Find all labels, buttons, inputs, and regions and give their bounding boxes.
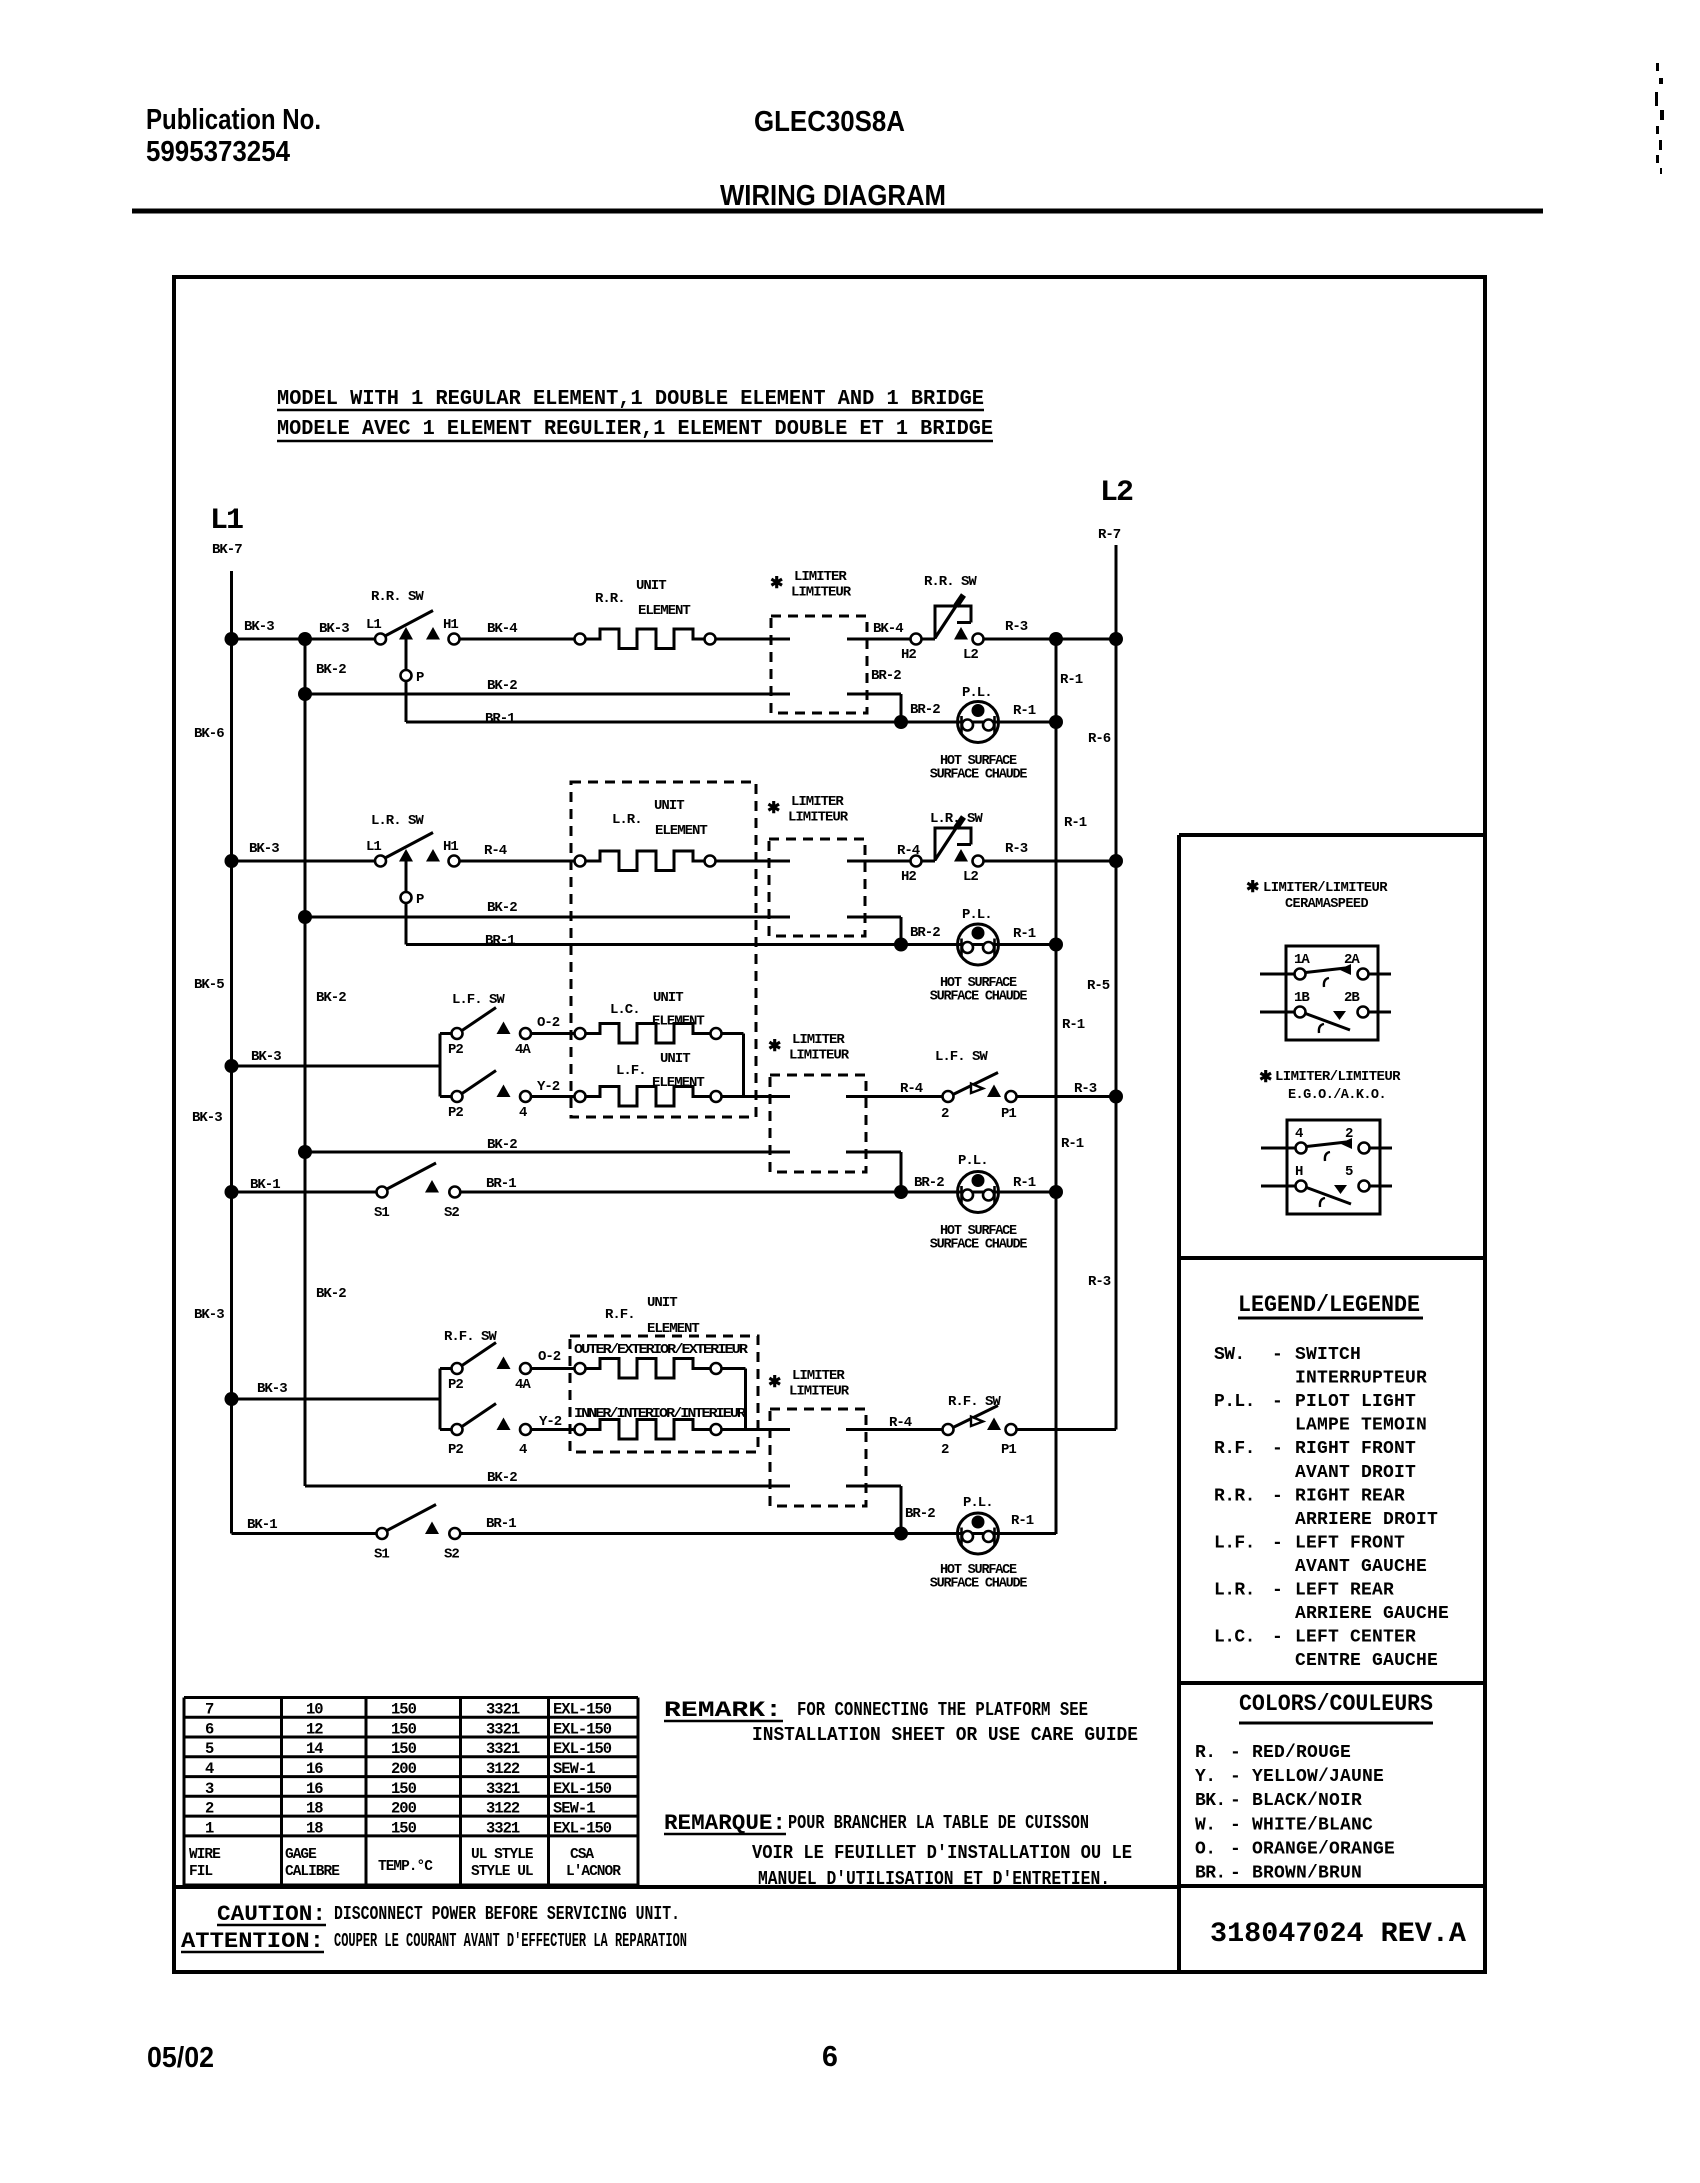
svg-text:150: 150 bbox=[391, 1780, 417, 1798]
svg-text:200: 200 bbox=[391, 1760, 417, 1778]
svg-text:BK-2: BK-2 bbox=[487, 678, 517, 694]
svg-text:ELEMENT: ELEMENT bbox=[655, 823, 707, 839]
svg-text:150: 150 bbox=[391, 1701, 417, 1719]
svg-text:COUPER LE COURANT AVANT D'EFFE: COUPER LE COURANT AVANT D'EFFECTUER LA R… bbox=[334, 1930, 687, 1952]
svg-text:18: 18 bbox=[306, 1819, 323, 1837]
svg-text:H2: H2 bbox=[901, 869, 916, 885]
svg-text:H1: H1 bbox=[443, 617, 458, 633]
terminal P bbox=[401, 670, 412, 681]
svg-text:Publication No.: Publication No. bbox=[146, 104, 321, 136]
svg-text:WHITE/BLANC: WHITE/BLANC bbox=[1252, 1815, 1373, 1835]
svg-text:R-5: R-5 bbox=[1087, 978, 1110, 994]
svg-text:150: 150 bbox=[391, 1740, 417, 1758]
junction BR-2/BR-1 row3 bbox=[894, 1185, 908, 1199]
svg-text:P: P bbox=[416, 892, 424, 908]
svg-text:1A: 1A bbox=[1294, 952, 1310, 968]
wire BK-2 row1 bbox=[305, 693, 790, 696]
junction BR-2/BR-1 row2 bbox=[894, 938, 908, 952]
svg-text:INTERRUPTEUR: INTERRUPTEUR bbox=[1295, 1369, 1427, 1389]
wire L1 bus vertical bbox=[230, 571, 233, 1534]
wire R-3 bbox=[984, 638, 1117, 641]
svg-text:R-3: R-3 bbox=[1005, 841, 1028, 857]
svg-text:R.R.: R.R. bbox=[1214, 1486, 1255, 1506]
svg-text:R-1: R-1 bbox=[1011, 1513, 1034, 1529]
svg-text:BROWN/BRUN: BROWN/BRUN bbox=[1252, 1864, 1362, 1884]
svg-text:-: - bbox=[1272, 1533, 1283, 1553]
junction BK-2 row3 bbox=[298, 1145, 312, 1159]
hook row B bbox=[1319, 1024, 1324, 1033]
svg-text:R-7: R-7 bbox=[1098, 527, 1121, 543]
switch L.R. SW (left): contact L1 terminal bbox=[375, 856, 386, 867]
svg-text:-: - bbox=[1230, 1839, 1241, 1859]
svg-text:L.F.: L.F. bbox=[616, 1063, 646, 1079]
svg-text:R.F.: R.F. bbox=[605, 1307, 635, 1323]
svg-text:POUR BRANCHER LA TABLE DE CUIS: POUR BRANCHER LA TABLE DE CUISSON bbox=[788, 1812, 1089, 1834]
svg-text:R-6: R-6 bbox=[1088, 731, 1111, 747]
svg-text:L.F. SW: L.F. SW bbox=[935, 1049, 988, 1065]
hook row B bbox=[1320, 1198, 1325, 1207]
svg-text:L.C.: L.C. bbox=[1214, 1628, 1255, 1648]
svg-text:L.R. SW: L.R. SW bbox=[371, 813, 424, 829]
junction L2 bus / row3 bbox=[1109, 1090, 1123, 1104]
wire bridge top row3 bbox=[722, 1032, 744, 1035]
svg-text:-: - bbox=[1230, 1791, 1241, 1811]
blade row B bbox=[1306, 1014, 1351, 1031]
svg-text:4A: 4A bbox=[515, 1377, 531, 1393]
svg-text:BK-6: BK-6 bbox=[194, 726, 224, 742]
svg-text:1B: 1B bbox=[1294, 990, 1310, 1006]
svg-text:LIMITER: LIMITER bbox=[792, 1368, 845, 1384]
svg-text:PILOT LIGHT: PILOT LIGHT bbox=[1295, 1392, 1416, 1412]
svg-text:ELEMENT: ELEMENT bbox=[652, 1014, 704, 1030]
svg-text:L.F. SW: L.F. SW bbox=[452, 992, 505, 1008]
svg-text:ATTENTION:: ATTENTION: bbox=[181, 1929, 324, 1954]
svg-text:H2: H2 bbox=[901, 647, 916, 663]
wire BR-2 elbow row4 bbox=[900, 1486, 903, 1534]
double switch L.F. SW (left) bbox=[439, 1034, 442, 1097]
svg-text:BR-2: BR-2 bbox=[910, 925, 940, 941]
svg-text:TEMP.°C: TEMP.°C bbox=[378, 1859, 433, 1875]
svg-text:BK.: BK. bbox=[1195, 1791, 1226, 1811]
switch L.R. SW (left): contact arrow P bbox=[399, 849, 413, 862]
svg-text:L.C.: L.C. bbox=[610, 1002, 640, 1018]
switch R.R. SW (left): contact H1 terminal bbox=[449, 634, 460, 645]
wire R-4 row4 bbox=[846, 1428, 943, 1431]
svg-text:O-2: O-2 bbox=[537, 1015, 560, 1031]
svg-text:AVANT GAUCHE: AVANT GAUCHE bbox=[1295, 1557, 1427, 1577]
wire O-2 row4 bbox=[531, 1367, 575, 1370]
wire BK-1 row4 bbox=[232, 1532, 377, 1535]
svg-text:3321: 3321 bbox=[486, 1740, 520, 1758]
wire terminal lead bbox=[1358, 973, 1392, 976]
wire R-1 return column vertical bbox=[1055, 637, 1058, 1534]
wire terminal lead bbox=[1260, 1011, 1295, 1014]
resistor: R.F. outer element bbox=[575, 1363, 586, 1374]
svg-text:SW.: SW. bbox=[1214, 1345, 1245, 1365]
svg-text:BR-2: BR-2 bbox=[905, 1506, 935, 1522]
svg-text:✱: ✱ bbox=[767, 800, 780, 818]
header rule bbox=[132, 209, 1543, 214]
svg-text:WIRING DIAGRAM: WIRING DIAGRAM bbox=[720, 180, 946, 212]
svg-text:LIMITER: LIMITER bbox=[791, 794, 844, 810]
svg-text:P2: P2 bbox=[448, 1442, 463, 1458]
svg-text:BK-2: BK-2 bbox=[316, 662, 346, 678]
svg-text:Y-2: Y-2 bbox=[539, 1414, 562, 1430]
svg-text:L.R.: L.R. bbox=[1214, 1581, 1255, 1601]
svg-text:P2: P2 bbox=[448, 1105, 463, 1121]
svg-text:AVANT DROIT: AVANT DROIT bbox=[1295, 1463, 1416, 1483]
svg-text:-: - bbox=[1230, 1864, 1241, 1884]
svg-text:BK-1: BK-1 bbox=[250, 1177, 280, 1193]
wire Y-2 bbox=[531, 1095, 575, 1098]
resistor: L.R. unit element bbox=[575, 856, 586, 867]
svg-text:3321: 3321 bbox=[486, 1780, 520, 1798]
svg-text:BK-3: BK-3 bbox=[257, 1381, 287, 1397]
svg-text:YELLOW/JAUNE: YELLOW/JAUNE bbox=[1252, 1767, 1384, 1787]
wire terminal lead bbox=[1261, 1147, 1296, 1150]
wire BR-2 elbow row2 bbox=[900, 917, 903, 945]
wire bridge vertical row3 bbox=[742, 1034, 745, 1097]
svg-text:UNIT: UNIT bbox=[660, 1051, 690, 1067]
wire bridge vertical row4 bbox=[744, 1369, 747, 1430]
terminal 1B bbox=[1295, 1007, 1306, 1018]
svg-text:R.R. SW: R.R. SW bbox=[924, 574, 977, 590]
svg-text:5: 5 bbox=[1345, 1164, 1353, 1180]
svg-text:CAUTION:: CAUTION: bbox=[217, 1902, 326, 1927]
svg-text:4A: 4A bbox=[515, 1042, 531, 1058]
svg-text:-: - bbox=[1230, 1743, 1241, 1763]
svg-text:UNIT: UNIT bbox=[647, 1295, 677, 1311]
junction L2 bus / row2 bbox=[1109, 854, 1123, 868]
wire Y-2 row4 bbox=[531, 1428, 575, 1431]
blade row A bbox=[1306, 968, 1351, 973]
svg-text:150: 150 bbox=[391, 1721, 417, 1739]
svg-text:BR-1: BR-1 bbox=[485, 933, 515, 949]
svg-text:BK-2: BK-2 bbox=[316, 990, 346, 1006]
svg-text:P.L.: P.L. bbox=[1214, 1392, 1255, 1412]
svg-text:BK-3: BK-3 bbox=[192, 1110, 222, 1126]
pilot light P.L. row3 bbox=[958, 1172, 999, 1213]
svg-text:3122: 3122 bbox=[486, 1760, 520, 1778]
svg-text:LEFT FRONT: LEFT FRONT bbox=[1295, 1533, 1405, 1553]
svg-text:BK-2: BK-2 bbox=[487, 900, 517, 916]
terminal 1A bbox=[1295, 969, 1306, 980]
junction R-1 col row3 bbox=[1049, 1185, 1063, 1199]
wire BR-2 elbow row3 bbox=[900, 1152, 903, 1192]
svg-text:-: - bbox=[1272, 1345, 1283, 1365]
svg-text:UL STYLE: UL STYLE bbox=[471, 1847, 534, 1863]
svg-text:BLACK/NOIR: BLACK/NOIR bbox=[1252, 1791, 1362, 1811]
switch R.F. SW (right) bbox=[943, 1424, 954, 1435]
svg-text:BK-3: BK-3 bbox=[251, 1049, 281, 1065]
svg-text:EXL-150: EXL-150 bbox=[553, 1701, 612, 1719]
svg-text:W.: W. bbox=[1195, 1815, 1215, 1835]
svg-text:H1: H1 bbox=[443, 839, 458, 855]
wire element to limiter bbox=[716, 638, 791, 641]
svg-text:RIGHT FRONT: RIGHT FRONT bbox=[1295, 1439, 1416, 1459]
table grid bbox=[184, 1696, 638, 1699]
svg-text:150: 150 bbox=[391, 1819, 417, 1837]
svg-text:RED/ROUGE: RED/ROUGE bbox=[1252, 1743, 1351, 1763]
svg-text:L1: L1 bbox=[210, 504, 243, 538]
svg-text:L1: L1 bbox=[366, 839, 381, 855]
svg-text:P.L.: P.L. bbox=[962, 685, 992, 701]
svg-text:4: 4 bbox=[1295, 1126, 1303, 1142]
wire R-4 row2 bbox=[460, 860, 575, 863]
legend panel top border bbox=[1179, 1256, 1485, 1260]
svg-text:L2: L2 bbox=[963, 647, 978, 663]
svg-text:ELEMENT: ELEMENT bbox=[652, 1075, 704, 1091]
svg-text:4: 4 bbox=[519, 1105, 527, 1121]
svg-text:R-3: R-3 bbox=[1005, 619, 1028, 635]
junction BK-2 row2 bbox=[298, 910, 312, 924]
pilot light P.L. row2 bbox=[958, 924, 999, 965]
svg-text:-: - bbox=[1272, 1392, 1283, 1412]
svg-text:3321: 3321 bbox=[486, 1721, 520, 1739]
svg-text:BR-2: BR-2 bbox=[871, 668, 901, 684]
resistor: R.F. inner element bbox=[575, 1424, 586, 1435]
svg-text:2B: 2B bbox=[1344, 990, 1360, 1006]
svg-text:3321: 3321 bbox=[486, 1819, 520, 1837]
svg-text:1: 1 bbox=[205, 1819, 214, 1837]
wire BK-2 distribution vertical bbox=[304, 639, 307, 1486]
svg-text:S1: S1 bbox=[374, 1205, 389, 1221]
svg-text:R-1: R-1 bbox=[1013, 1175, 1036, 1191]
wire pilot tap vertical bbox=[405, 640, 408, 723]
switch L.F. SW (right) bbox=[943, 1091, 954, 1102]
svg-text:SEW-1: SEW-1 bbox=[553, 1760, 595, 1778]
thermal switch L.R. SW (right) bbox=[911, 856, 922, 867]
svg-text:ARRIERE DROIT: ARRIERE DROIT bbox=[1295, 1510, 1438, 1530]
svg-text:CENTRE GAUCHE: CENTRE GAUCHE bbox=[1295, 1651, 1438, 1671]
svg-text:CERAMASPEED: CERAMASPEED bbox=[1285, 896, 1368, 912]
svg-text:R-1: R-1 bbox=[1062, 1017, 1085, 1033]
svg-text:-: - bbox=[1272, 1628, 1283, 1648]
svg-text:BR-2: BR-2 bbox=[914, 1175, 944, 1191]
svg-text:R.: R. bbox=[1195, 1743, 1215, 1763]
svg-text:L1: L1 bbox=[366, 617, 381, 633]
svg-text:BK-4: BK-4 bbox=[487, 621, 517, 637]
svg-text:BK-3: BK-3 bbox=[244, 619, 274, 635]
svg-text:E.G.O./A.K.O.: E.G.O./A.K.O. bbox=[1288, 1087, 1386, 1103]
svg-text:4: 4 bbox=[519, 1442, 527, 1458]
svg-text:SWITCH: SWITCH bbox=[1295, 1345, 1361, 1365]
wire BR-2 limiter exit row3 bbox=[846, 1151, 901, 1154]
junction R-1 col row1 bbox=[1049, 715, 1063, 729]
terminal 5 bbox=[1359, 1181, 1370, 1192]
wire element to limiter row2 bbox=[716, 860, 791, 863]
wire R-4 row3 bbox=[846, 1095, 943, 1098]
svg-text:GAGE: GAGE bbox=[285, 1847, 317, 1863]
svg-text:S1: S1 bbox=[374, 1547, 389, 1563]
junction R-1 col / row1 bbox=[1049, 632, 1063, 646]
svg-text:200: 200 bbox=[391, 1800, 417, 1818]
svg-text:L2: L2 bbox=[1100, 476, 1133, 510]
resistor: L.C. unit element bbox=[575, 1028, 586, 1039]
svg-text:5995373254: 5995373254 bbox=[146, 136, 290, 168]
svg-text:5: 5 bbox=[205, 1740, 214, 1758]
svg-text:BK-2: BK-2 bbox=[487, 1470, 517, 1486]
svg-text:R-3: R-3 bbox=[1088, 1274, 1111, 1290]
svg-text:✱: ✱ bbox=[768, 1374, 781, 1392]
svg-text:BK-7: BK-7 bbox=[212, 542, 242, 558]
switch R.R. SW (left): contact L1 terminal bbox=[375, 634, 386, 645]
terminal P bbox=[401, 892, 412, 903]
wire BK-3 row3 feed bbox=[232, 1065, 441, 1068]
wire BK-4 limiter to H2 bbox=[847, 638, 911, 641]
terminal 2A bbox=[1358, 969, 1369, 980]
wire L2 / R-3 bus vertical bbox=[1115, 545, 1118, 1430]
svg-text:LAMPE TEMOIN: LAMPE TEMOIN bbox=[1295, 1416, 1427, 1436]
terminal H bbox=[1296, 1181, 1307, 1192]
junction L2 bus / row1 bbox=[1109, 632, 1123, 646]
svg-text:P2: P2 bbox=[448, 1377, 463, 1393]
switch S1/S2 row3 bbox=[377, 1187, 388, 1198]
svg-text:LEFT REAR: LEFT REAR bbox=[1295, 1581, 1394, 1601]
svg-text:✱: ✱ bbox=[768, 1038, 781, 1056]
thermal switch R.R. SW (right) bbox=[911, 634, 922, 645]
svg-text:BR.: BR. bbox=[1195, 1864, 1226, 1884]
svg-text:3321: 3321 bbox=[486, 1701, 520, 1719]
svg-text:R-1: R-1 bbox=[1013, 703, 1036, 719]
svg-text:2A: 2A bbox=[1344, 952, 1360, 968]
outer border frame bbox=[174, 277, 1485, 1972]
svg-text:P: P bbox=[416, 670, 424, 686]
svg-text:LIMITER/LIMITEUR: LIMITER/LIMITEUR bbox=[1275, 1069, 1401, 1085]
svg-text:LIMITER: LIMITER bbox=[794, 569, 847, 585]
svg-text:INSTALLATION SHEET OR USE CARE: INSTALLATION SHEET OR USE CARE GUIDE bbox=[752, 1724, 1138, 1746]
switch L.R. SW (left): contact arrow H1 bbox=[426, 849, 440, 862]
wire BK-3 row1 feed bbox=[232, 638, 376, 641]
dashed unit element box rows 2-3 bbox=[571, 782, 756, 1117]
svg-text:-: - bbox=[1230, 1767, 1241, 1787]
svg-text:L'ACNOR: L'ACNOR bbox=[566, 1864, 621, 1880]
svg-text:7: 7 bbox=[205, 1701, 214, 1719]
svg-text:EXL-150: EXL-150 bbox=[553, 1740, 612, 1758]
svg-text:P1: P1 bbox=[1001, 1106, 1016, 1122]
svg-text:BR-2: BR-2 bbox=[910, 702, 940, 718]
wire BR-1 row3 bbox=[460, 1191, 1056, 1194]
svg-text:BR-1: BR-1 bbox=[486, 1176, 516, 1192]
svg-text:P.L.: P.L. bbox=[962, 907, 992, 923]
terminal 4 bbox=[1296, 1143, 1307, 1154]
svg-text:LIMITEUR: LIMITEUR bbox=[789, 1384, 850, 1400]
rev box top border bbox=[1179, 1884, 1485, 1888]
wire terminal lead bbox=[1359, 1185, 1393, 1188]
svg-text:2: 2 bbox=[205, 1800, 214, 1818]
limiter (dashed) row3 bbox=[770, 1075, 866, 1172]
junction BR-2/BR-1 row1 bbox=[894, 715, 908, 729]
svg-text:P.L.: P.L. bbox=[963, 1495, 993, 1511]
wire BK-3 row2 feed bbox=[232, 860, 376, 863]
junction BK-2 row1 bbox=[298, 687, 312, 701]
svg-text:FOR CONNECTING THE PLATFORM SE: FOR CONNECTING THE PLATFORM SEE bbox=[797, 1699, 1088, 1721]
limiter (dashed) row1 bbox=[771, 616, 867, 713]
junction BK-2 tap row1 bbox=[298, 632, 312, 646]
svg-text:BR-1: BR-1 bbox=[486, 1516, 516, 1532]
svg-text:LIMITEUR: LIMITEUR bbox=[788, 810, 849, 826]
junction R-1 col row2 bbox=[1049, 938, 1063, 952]
svg-text:R-1: R-1 bbox=[1061, 1136, 1084, 1152]
wire R-3 row3 bbox=[1017, 1095, 1117, 1098]
svg-text:BK-3: BK-3 bbox=[194, 1307, 224, 1323]
svg-text:14: 14 bbox=[306, 1740, 323, 1758]
wire BK-2 row3 bbox=[305, 1151, 790, 1154]
switch R.R. SW (left): contact arrow P bbox=[399, 627, 413, 640]
svg-text:H: H bbox=[1295, 1164, 1303, 1180]
svg-text:R.R.: R.R. bbox=[595, 591, 625, 607]
svg-text:SEW-1: SEW-1 bbox=[553, 1800, 595, 1818]
junction L1/row4 feed bbox=[225, 1392, 239, 1406]
limiter (dashed) row2 bbox=[769, 839, 865, 936]
svg-text:✱: ✱ bbox=[770, 575, 783, 593]
svg-text:BK-2: BK-2 bbox=[487, 1137, 517, 1153]
svg-text:18: 18 bbox=[306, 1800, 323, 1818]
wire BR-2 limiter exit row2 bbox=[847, 916, 901, 919]
svg-text:✱: ✱ bbox=[1246, 879, 1259, 897]
svg-text:LIMITER/LIMITEUR: LIMITER/LIMITEUR bbox=[1263, 880, 1388, 896]
wire BR-2 limiter exit bbox=[847, 693, 901, 696]
svg-text:3122: 3122 bbox=[486, 1800, 520, 1818]
resistor: L.F. unit element bbox=[575, 1091, 586, 1102]
svg-text:O.: O. bbox=[1195, 1839, 1215, 1859]
junction L1/row3 BK-1 bbox=[225, 1185, 239, 1199]
wire O-2 bbox=[531, 1032, 575, 1035]
double switch R.F. SW (left) bbox=[439, 1369, 442, 1430]
svg-text:SURFACE CHAUDE: SURFACE CHAUDE bbox=[930, 1238, 1028, 1253]
wire terminal lead bbox=[1358, 1011, 1392, 1014]
svg-text:ARRIERE GAUCHE: ARRIERE GAUCHE bbox=[1295, 1604, 1449, 1624]
svg-text:LIMITEUR: LIMITEUR bbox=[791, 585, 852, 601]
svg-text:WIRE: WIRE bbox=[189, 1847, 221, 1863]
svg-text:318047024 REV.A: 318047024 REV.A bbox=[1210, 1919, 1466, 1950]
wire BK-2 row4 bbox=[305, 1485, 790, 1488]
svg-text:BK-1: BK-1 bbox=[247, 1517, 277, 1533]
wire R-3 row4 to bus elbow bbox=[1017, 1428, 1117, 1431]
svg-text:BK-2: BK-2 bbox=[316, 1286, 346, 1302]
svg-text:P2: P2 bbox=[448, 1042, 463, 1058]
svg-text:2: 2 bbox=[1345, 1126, 1353, 1142]
svg-text:CALIBRE: CALIBRE bbox=[285, 1864, 340, 1880]
svg-text:CSA: CSA bbox=[570, 1847, 594, 1863]
junction L1/row1 bbox=[225, 632, 239, 646]
switch R.R. SW (left): contact arrow H1 bbox=[426, 627, 440, 640]
svg-text:MODEL WITH 1 REGULAR ELEMENT,1: MODEL WITH 1 REGULAR ELEMENT,1 DOUBLE EL… bbox=[277, 388, 984, 411]
svg-text:EXL-150: EXL-150 bbox=[553, 1721, 612, 1739]
svg-text:BK-5: BK-5 bbox=[194, 977, 224, 993]
svg-text:L2: L2 bbox=[963, 869, 978, 885]
svg-text:SURFACE CHAUDE: SURFACE CHAUDE bbox=[930, 990, 1028, 1005]
dashed unit element box row4 bbox=[570, 1336, 758, 1452]
svg-text:OUTER/EXTERIOR/EXTERIEUR: OUTER/EXTERIOR/EXTERIEUR bbox=[574, 1342, 749, 1358]
limiter E.G.O./A.K.O. sub-diagram box bbox=[1287, 1120, 1380, 1214]
limiter panel top border bbox=[1179, 833, 1485, 837]
svg-text:SURFACE CHAUDE: SURFACE CHAUDE bbox=[930, 768, 1028, 783]
svg-text:R-4: R-4 bbox=[900, 1081, 923, 1097]
svg-text:MODELE AVEC 1 ELEMENT REGULIER: MODELE AVEC 1 ELEMENT REGULIER,1 ELEMENT… bbox=[277, 418, 993, 441]
svg-text:EXL-150: EXL-150 bbox=[553, 1780, 612, 1798]
wire limiter to H2 row2 bbox=[847, 860, 911, 863]
svg-text:UNIT: UNIT bbox=[654, 798, 684, 814]
svg-text:-: - bbox=[1272, 1581, 1283, 1601]
wire bridge top row4 bbox=[722, 1367, 746, 1370]
svg-text:R.F. SW: R.F. SW bbox=[444, 1329, 497, 1345]
svg-text:REMARK:: REMARK: bbox=[664, 1698, 782, 1723]
svg-text:-: - bbox=[1230, 1815, 1241, 1835]
svg-text:FIL: FIL bbox=[189, 1864, 212, 1880]
svg-text:VOIR LE FEUILLET D'INSTALLATIO: VOIR LE FEUILLET D'INSTALLATION OU LE bbox=[752, 1842, 1132, 1864]
wire BR-1 row4 bbox=[460, 1532, 1056, 1535]
